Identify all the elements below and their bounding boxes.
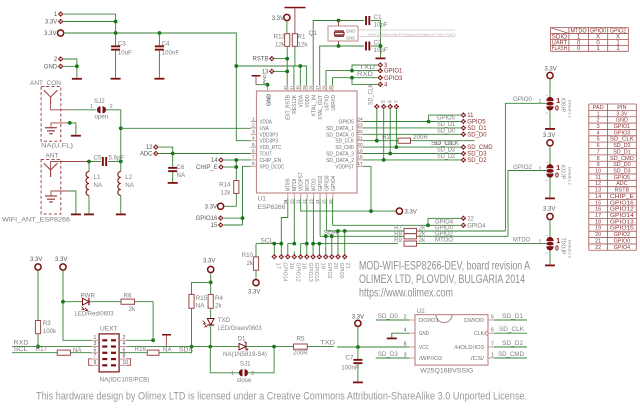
resistor R10 2k pullup [255,244,257,257]
svg-text:17: 17 [274,263,280,269]
pin pad 18 header [300,252,302,255]
U1 pin 12 MTCK [306,193,308,199]
svg-text:0: 0 [555,105,559,112]
junction VDDA pin30 [298,64,302,68]
wire LED to R6 [89,301,121,303]
wire SD_CLK row / resistor R2 200R [363,140,398,142]
svg-text:MTCK: MTCK [305,178,311,191]
wire to IO2JP [549,146,551,164]
svg-text:This hardware design by Olimex: This hardware design by Olimex LTD is li… [36,391,527,403]
wire XPD_DCDC net [243,166,251,225]
svg-text:MOD-WIFI-ESP8266-DEV, board re: MOD-WIFI-ESP8266-DEV, board revision A [359,259,530,273]
junction C5/L2 [119,160,123,164]
wire GPIO13 segment [301,243,307,245]
svg-text:VDDA: VDDA [260,120,273,126]
svg-text:https://www.olimex.com: https://www.olimex.com [359,286,453,300]
svg-text:RSTB: RSTB [252,57,268,63]
junction [285,57,289,61]
wire SJ1 to net [247,347,274,373]
U1 pin 6 TOUT [251,153,257,155]
junction [234,158,238,162]
svg-text:Q1: Q1 [308,30,317,37]
svg-text:12: 12 [302,199,308,204]
svg-text:MTMS: MTMS [286,178,292,191]
junction [350,69,354,73]
junction C3 [114,31,118,35]
svg-text:SD_D0: SD_D0 [613,162,630,168]
svg-text:21: 21 [345,263,351,269]
resistor R15 NA [189,294,194,308]
svg-text:VCC: VCC [419,345,429,351]
wire R4 to LED [210,308,212,318]
svg-text:9: 9 [597,162,600,168]
ground [72,78,82,80]
resistor R3 100k [35,321,40,334]
pin pad GPIO2 header [325,252,327,255]
svg-text:3.3V: 3.3V [272,16,284,22]
svg-text:SD_CMD: SD_CMD [498,351,524,358]
wire VDDA/VDDD 3.3V rail [236,66,306,86]
pin pad SD_D2 [461,157,467,163]
svg-text:TDOJP: TDOJP [560,238,566,256]
junction [350,76,354,80]
svg-text:L2: L2 [125,174,132,181]
svg-text:GND: GND [44,64,58,70]
svg-text:ANT_CON: ANT_CON [30,80,61,87]
wire pad4 [352,78,378,85]
wire ANT feed [51,162,89,178]
svg-text:2: 2 [123,335,126,341]
svg-text:LNA: LNA [260,126,270,132]
wire VCC to C7 [357,347,359,359]
junction [68,121,72,125]
ground UEXT pin4 (bar up) [162,334,171,336]
svg-text:C7: C7 [345,355,353,362]
svg-text:10uF: 10uF [118,50,132,57]
wire CHIP_E [224,166,237,168]
wire SD_DATA_1 row [363,127,463,129]
svg-text:GND: GND [267,94,273,106]
U1 pin 15 GPIO0 [326,193,328,199]
svg-text:17: 17 [357,161,363,167]
pin pad SD_D1 [461,125,467,131]
wire SDA row to D1 [165,346,239,348]
pin pad 1 (3.3V) [58,11,64,17]
U1 pin 25 U0RXD [332,86,334,92]
svg-text:W25Q16BVSSIG: W25Q16BVSSIG [420,368,473,375]
svg-text:3.3V: 3.3V [203,259,215,265]
svg-text:2: 2 [252,123,255,129]
svg-text:L1: L1 [94,174,101,181]
table SDIO/UART/FLASH boot modes [551,28,629,52]
wire MTDO row to TDOJP [417,243,547,245]
svg-text:GND: GND [419,331,429,337]
svg-text:100nF: 100nF [162,50,180,57]
svg-text:XTAL_IN: XTAL_IN [311,95,317,117]
wire C5 to node [108,161,121,163]
supply 3.3V circle U2 [355,320,361,326]
wire pad12 [159,147,173,153]
wire SD_DATA_3 row [363,153,463,155]
wire pin14 riser [319,199,321,237]
U1 pin 27 XTAL_OUT [319,86,321,92]
svg-text:3: 3 [404,352,407,358]
svg-text:MTDO: MTDO [311,179,317,191]
svg-text:3.3V: 3.3V [352,314,364,320]
svg-text:7: 7 [252,155,255,161]
svg-text:3: 3 [545,180,549,182]
svg-text:12: 12 [146,145,153,151]
svg-text:2: 2 [597,118,600,124]
ground C3 [111,78,121,80]
U1 pin 4 VDD3P3 [251,140,257,142]
junction [75,64,79,68]
U1 pin 7 CHIP_EN [251,159,257,161]
svg-text:19: 19 [319,263,325,269]
svg-text:2: 2 [404,314,407,320]
svg-text:SD_CMD: SD_CMD [610,156,634,162]
svg-text:SJ2: SJ2 [94,98,105,105]
svg-text:DI/IO0: DI/IO0 [464,318,484,324]
svg-text:ANT: ANT [46,153,59,160]
svg-text:SD_D0: SD_D0 [437,127,455,134]
pin pad GPIO16 [218,215,224,221]
svg-text:ESP8266: ESP8266 [258,204,286,211]
U1 pin 30 VDDA [300,86,302,92]
svg-text:SD_DATA_2: SD_DATA_2 [326,158,354,164]
junction pad22 branch [426,223,430,227]
svg-text:GPIO16: GPIO16 [610,200,634,206]
svg-text:3.3V: 3.3V [543,133,555,139]
svg-text:R16: R16 [135,346,147,353]
svg-text:GPIO0: GPIO0 [324,176,330,192]
wire riser pad16 [287,244,289,252]
svg-text:VDDPST: VDDPST [299,172,305,191]
svg-text:RSTB: RSTB [615,188,630,194]
svg-text:SD_D0: SD_D0 [467,132,487,138]
svg-text:5: 5 [491,314,494,320]
svg-text:3.3V: 3.3V [544,67,556,73]
svg-text:31: 31 [289,85,295,90]
svg-text:3.3V: 3.3V [205,205,217,211]
svg-text:1: 1 [545,235,549,237]
svg-text:5: 5 [94,347,97,353]
svg-text:14: 14 [595,194,601,200]
svg-text:15: 15 [595,200,601,206]
svg-text:8: 8 [404,341,407,347]
svg-text:3.3V: 3.3V [45,20,57,26]
svg-text:22: 22 [357,129,363,135]
svg-text:1: 1 [597,111,600,117]
wire MTDO segment [313,243,398,245]
svg-text:SD_DATA_3: SD_DATA_3 [326,152,354,158]
svg-text:6: 6 [491,328,494,334]
svg-text:U0TXD: U0TXD [324,95,330,111]
svg-text:WIFI_ANT_ESP8266: WIFI_ANT_ESP8266 [2,217,71,224]
svg-text:200R: 200R [293,350,308,357]
svg-text:19: 19 [595,226,601,232]
pin pad SD_D3 [461,151,467,157]
wire to IO0JP [549,79,551,97]
svg-text:22: 22 [467,216,474,222]
svg-text:TXD: TXD [359,64,376,71]
svg-text:open: open [95,113,109,120]
svg-text:GND: GND [346,29,355,34]
wire pin15 riser [326,199,328,232]
wire GPIO12 segment [288,243,295,245]
table PAD/PIN assignments [589,104,637,250]
svg-text:IO0JP: IO0JP [560,98,566,113]
wire pad13 to net [275,70,288,72]
svg-text:GPIO0: GPIO0 [338,263,344,279]
U1 pin 14 GPIO2 [319,193,321,199]
pin pad GPIO12 header [293,252,295,255]
svg-text:11: 11 [467,113,474,119]
wire pin30 riser [299,66,301,86]
svg-text:MTDO: MTDO [513,237,530,244]
svg-text:LED/Green/0603: LED/Green/0603 [218,325,263,332]
svg-text:U1: U1 [258,196,267,203]
svg-text:SD_CLK: SD_CLK [499,326,525,333]
supply 3.3V circle IO0JP [547,72,553,78]
wire R13 to EXT_RSTB pin32 [286,46,288,85]
svg-text:8: 8 [252,161,255,167]
svg-text:C4: C4 [162,41,170,48]
svg-text:3: 3 [545,252,549,254]
svg-text:5: 5 [252,142,255,148]
svg-text:GPIO2: GPIO2 [614,232,630,238]
svg-text:PAD: PAD [262,74,268,84]
svg-text:2k: 2k [129,306,136,313]
jumper IO0JP [546,97,553,101]
wire 3.3V rail bottom [300,210,396,212]
wire UEXT pin4 to ground [127,345,167,347]
svg-text:ADC: ADC [616,181,627,187]
capacitor C1 10pF [365,16,367,25]
wire IO0JP to gnd [549,110,551,128]
wire U2 HOLD to SD_D2 [494,346,527,348]
svg-text:15: 15 [211,223,218,229]
U1 PAD pin 33 [267,85,269,91]
svg-text:14: 14 [211,158,218,164]
svg-text:R3: R3 [43,320,51,327]
junction LNA branch [119,126,123,130]
wire TDOJP to gnd [549,250,551,264]
wire ANT gnd [51,191,70,196]
svg-text:VDD3P3: VDD3P3 [260,139,279,145]
wire CHIP_EN net [236,160,250,181]
svg-text:SD_CMD: SD_CMD [335,145,354,151]
svg-text:21: 21 [595,238,601,244]
svg-text:C1: C1 [374,14,382,21]
wire VCC row [337,346,409,348]
svg-text:R14: R14 [219,182,231,189]
svg-text:GPIO1: GPIO1 [384,69,403,75]
svg-text:Default:1-2: Default:1-2 [568,167,572,185]
svg-text:GPIO4: GPIO4 [331,176,337,192]
wire C1 to gnd riser [371,21,381,58]
wire R15 to SDA row [191,308,193,346]
pin pad 11 [461,112,467,118]
svg-text:7: 7 [597,149,600,155]
ground [71,214,81,216]
capacitor C5 5.6pF [102,157,104,166]
capacitor C7 100nF [353,359,362,361]
pin pad 16 header [287,252,289,255]
svg-text:4: 4 [404,328,407,334]
svg-text:MTDI: MTDI [292,179,298,191]
svg-text:GPIO14: GPIO14 [281,263,287,282]
svg-text:TOUT: TOUT [260,152,273,158]
svg-text:GPIO16: GPIO16 [196,216,218,222]
svg-text:3: 3 [94,341,97,347]
svg-text:SD_CMD: SD_CMD [467,145,493,151]
pin pad GPIO14 header [280,252,282,255]
wire R3 to RXD [37,334,39,347]
svg-text:IO2JP: IO2JP [560,165,566,180]
wire UEXT pins 8/10 tie [127,359,131,366]
svg-text:SD_D2: SD_D2 [613,143,630,149]
svg-text:16: 16 [328,199,334,204]
wire 3.3V to VCC [357,327,359,348]
svg-text:29: 29 [302,85,308,90]
junction PWR branch [61,300,65,304]
svg-text:R5: R5 [297,336,305,343]
svg-text:18: 18 [301,263,307,269]
wire U2 CS to SD_CMD [494,357,527,359]
wire pin16 riser [332,199,334,226]
svg-text:/HOLD/IO3: /HOLD/IO3 [454,345,484,351]
svg-text:U2: U2 [417,308,426,315]
svg-text:GPIO5: GPIO5 [467,120,486,126]
wire pad3 [352,65,378,71]
svg-text:0: 0 [555,245,559,252]
wire GPIO2 pad riser [325,236,327,251]
ground C4 [154,78,164,80]
pin pad GPIO0 header [337,252,339,255]
wire R14 to 3.3V [224,194,236,207]
svg-text:GPIO2: GPIO2 [326,263,332,279]
junction [369,209,373,213]
U1 pin 8 XPD_DCDC [251,165,257,167]
svg-text:NA: NA [177,172,186,179]
svg-text:20: 20 [357,142,363,148]
wire to R15 [192,282,211,294]
svg-text:SD_D3: SD_D3 [467,152,487,158]
U1 pin 13 MTDO [313,193,315,199]
svg-text:GPIO0: GPIO0 [614,238,630,244]
U1 pin 29 VDDD [306,86,308,92]
supply bar for R1 [285,7,306,9]
svg-text:20: 20 [332,263,338,269]
svg-text:19: 19 [357,148,363,154]
svg-text:GPIO2: GPIO2 [513,164,533,171]
wire pad1 to rail [63,14,115,21]
wire pin9 riser [281,199,288,252]
pin pad GPIO3 (RXD) [378,75,384,81]
junction [114,20,118,24]
U2 pin 8 VCC [409,346,415,348]
svg-text:SD_CLK: SD_CLK [610,137,634,143]
capacitor C6 NA [172,154,174,167]
resistor R14 12k [234,181,239,194]
ground IO2JP [545,198,555,200]
svg-text:GPIO14: GPIO14 [610,213,634,219]
svg-text:1: 1 [231,371,234,377]
ground U2 [387,338,397,340]
svg-text:GPIO2: GPIO2 [318,176,324,192]
pin pad GPIO13 header [306,252,308,255]
wire ANT_CON gnd [51,123,70,128]
wire pin13 riser [312,199,314,244]
svg-text:8: 8 [123,354,126,360]
svg-text:OLIMEX LTD, PLOVDIV, BULGARIA: OLIMEX LTD, PLOVDIV, BULGARIA 2014 [359,272,525,286]
ground C6 [168,182,178,184]
wire UEXT pins 7/9 tie [89,359,92,366]
inductor L1 NA [88,162,90,172]
svg-text:1: 1 [252,116,255,122]
UEXT pin stubs [92,339,100,341]
svg-text:24: 24 [357,116,363,122]
ground L2 [116,214,126,216]
svg-text:2: 2 [539,239,542,245]
svg-text:200R: 200R [413,134,428,141]
svg-text:R13: R13 [274,34,286,41]
svg-text:R9: R9 [394,237,402,244]
svg-text:20: 20 [595,232,601,238]
supply 3.3V circle TDOJP [547,213,553,219]
svg-text:GND: GND [616,118,628,124]
antenna symbol ANT [44,163,58,177]
svg-text:SD_D3: SD_D3 [613,169,630,175]
wire R1 to RES12K pin31 [294,46,296,66]
svg-text:CHIP_E: CHIP_E [610,194,634,200]
supply 3.3V circle R10 [253,280,259,286]
ground symbol in ANT [45,195,57,197]
jumper IO2JP [546,164,553,168]
wire RSTB to net [275,58,288,60]
wire XTAL_IN to C1 [313,21,364,86]
svg-text:SD_D1: SD_D1 [613,149,630,155]
svg-text:11: 11 [595,175,601,181]
pin pad CHIP_E [218,164,224,170]
svg-text:3.3V: 3.3V [44,31,56,37]
svg-text:RES12K: RES12K [292,95,298,114]
svg-text:16: 16 [595,207,601,213]
svg-text:XPD_DCDC: XPD_DCDC [260,164,285,170]
svg-text:Default:2-3: Default:2-3 [568,240,572,258]
pin pad ADC [153,151,159,157]
U1 pin 5 VDD_RTC [251,146,257,148]
junction R15 branch [209,281,213,285]
junction pad11 branch [427,120,431,124]
svg-text:DO/IO1: DO/IO1 [419,318,439,324]
U1 pin 16 GPIO4 [332,193,334,199]
svg-text:3.3V: 3.3V [30,257,42,263]
wire XTAL_OUT to C2 [320,46,364,86]
svg-text:D1: D1 [238,336,246,343]
svg-text:SJ1: SJ1 [240,361,251,368]
svg-text:R4: R4 [215,295,223,302]
svg-text:NA: NA [94,182,103,189]
svg-text:XTAL_OUT: XTAL_OUT [318,94,324,119]
svg-text:SD_D1: SD_D1 [502,313,523,320]
wire U2 CLK to SD_CLK [494,332,527,334]
svg-text:Default:1-2: Default:1-2 [568,100,572,118]
svg-text:6: 6 [388,100,394,103]
svg-text:32: 32 [283,85,289,90]
capacitor C3 10uF [115,33,117,45]
